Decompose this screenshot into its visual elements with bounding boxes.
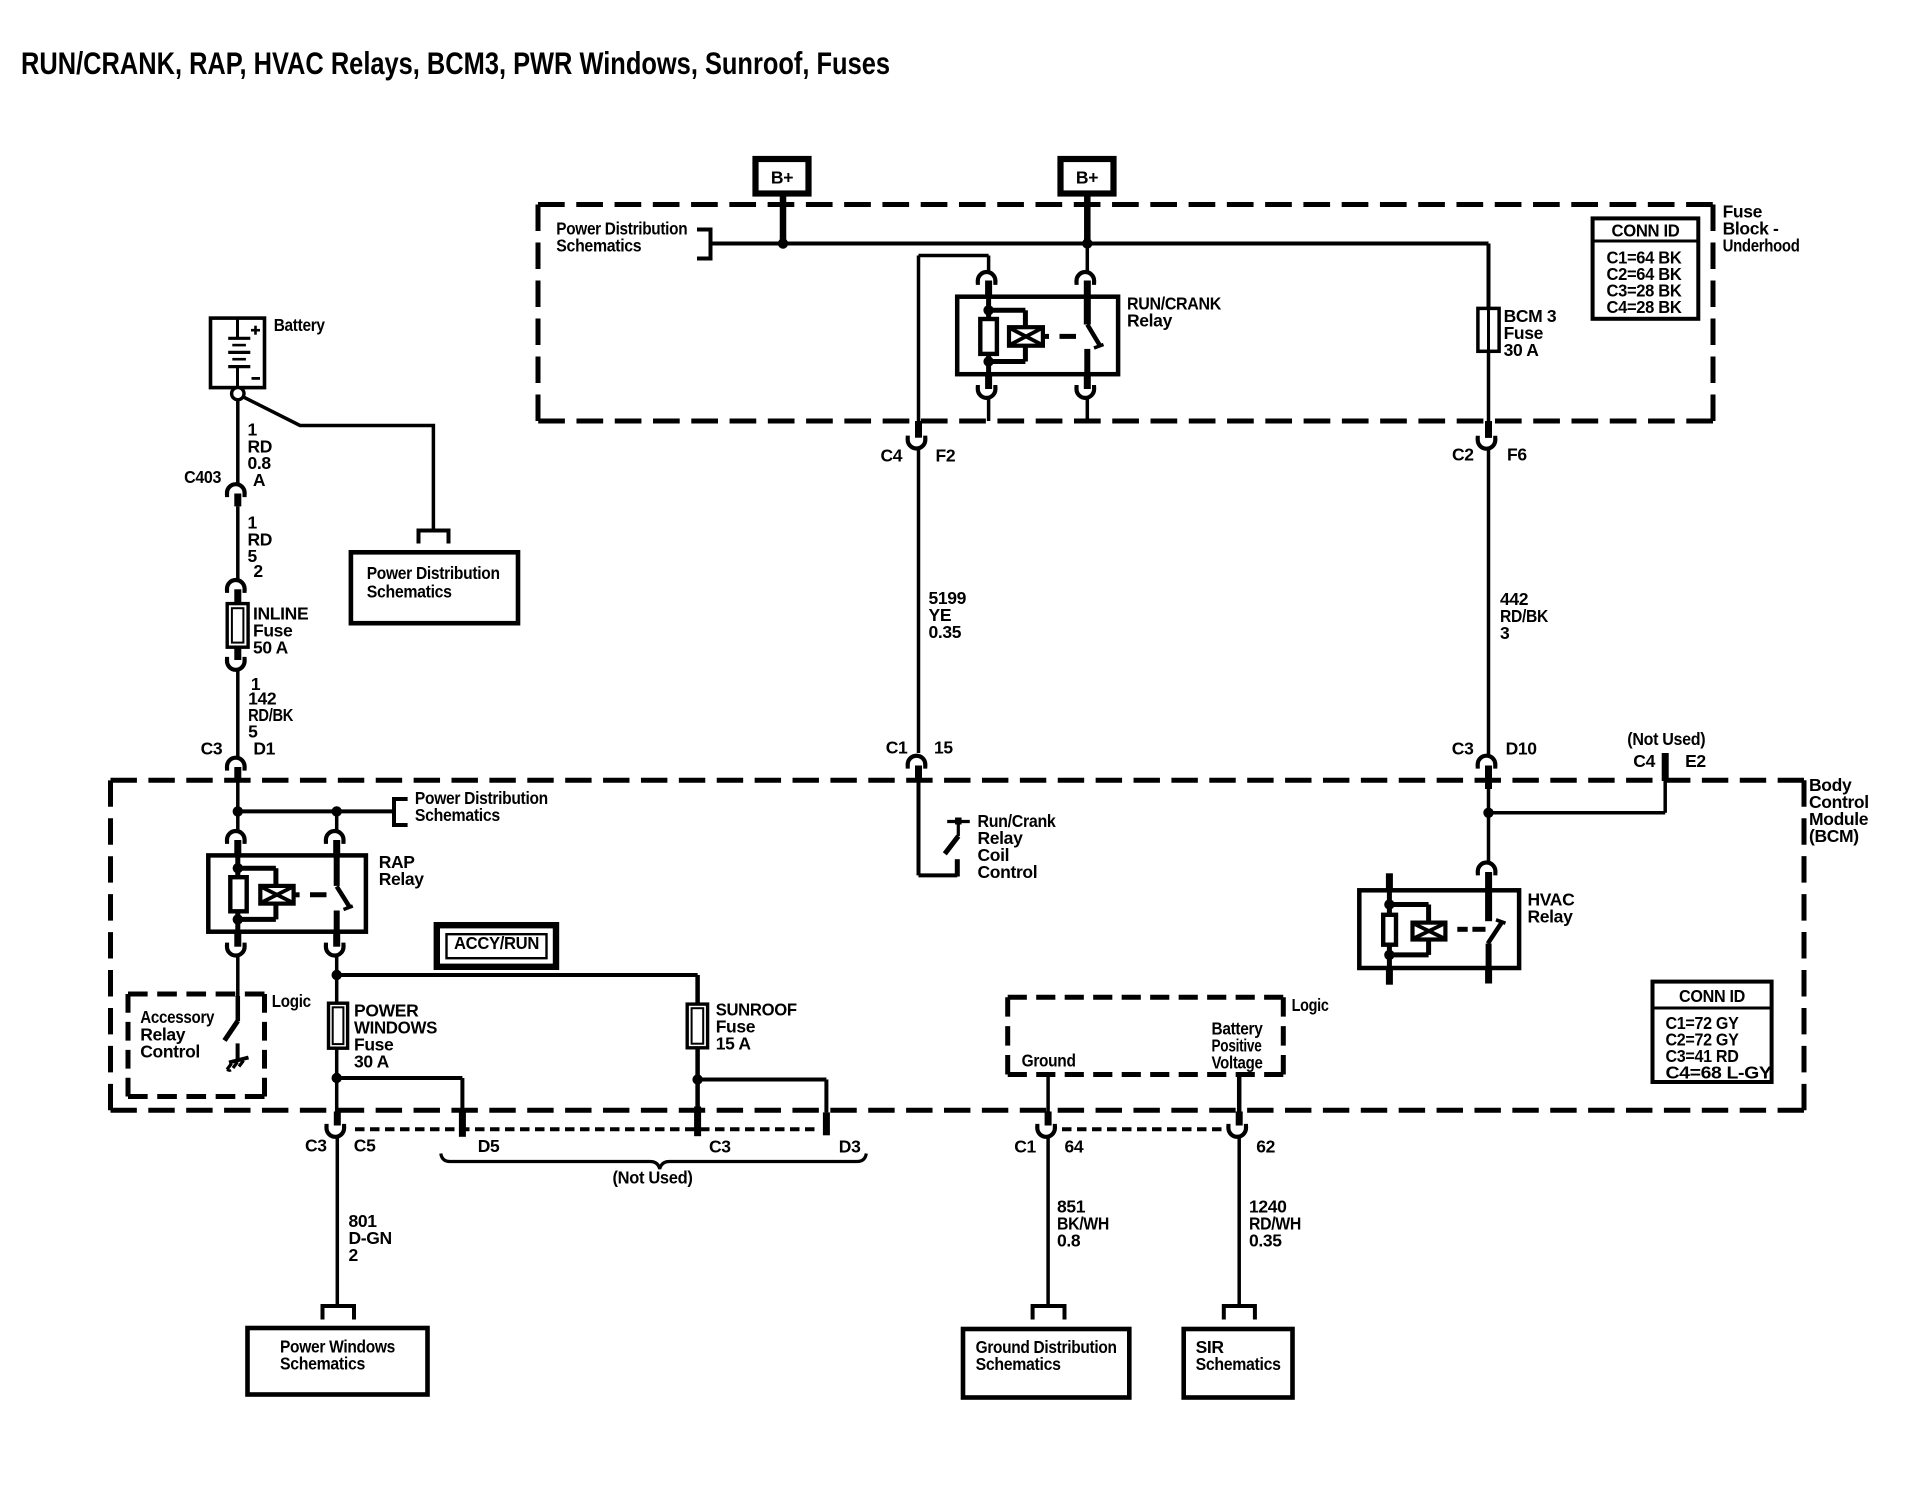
svg-text:Voltage: Voltage	[1212, 1053, 1264, 1073]
connector C403	[184, 467, 247, 506]
reference bracket Power Distribution Schematics (top)	[697, 230, 711, 259]
svg-text:62: 62	[1256, 1137, 1275, 1157]
svg-text:C3: C3	[1452, 739, 1474, 759]
svg-text:C4: C4	[881, 446, 903, 466]
svg-text:Control: Control	[140, 1042, 200, 1062]
ground (chassis)	[227, 1043, 249, 1070]
fuse block underhood dashed boundary	[538, 202, 1713, 207]
node junction B+1 / bus	[778, 238, 788, 248]
connector harness dotted line (right)	[1062, 1127, 1226, 1131]
label HVAC Relay	[1528, 890, 1576, 927]
wire RUN/CRANK coil feed (up-over-down to C4 F2)	[987, 256, 991, 271]
svg-text:Control: Control	[978, 862, 1038, 882]
connector C2 F6	[1452, 421, 1527, 465]
svg-text:B+: B+	[1076, 168, 1098, 188]
svg-text:C1: C1	[886, 737, 908, 757]
body control module dashed boundary	[111, 778, 1805, 783]
svg-text:D5: D5	[478, 1136, 500, 1156]
wire coil control into BCM	[917, 782, 921, 875]
node junction D5 branch	[332, 1073, 342, 1083]
wire 851 BK/WH	[1046, 1137, 1050, 1305]
connector C1 15	[886, 737, 954, 782]
page connector bracket (SIR)	[1224, 1306, 1255, 1320]
svg-text:C4=68 L-GY: C4=68 L-GY	[1666, 1062, 1773, 1082]
svg-text:Schematics: Schematics	[280, 1354, 366, 1374]
page connector bracket (power windows)	[323, 1306, 355, 1320]
connector C1 64	[1014, 1112, 1084, 1157]
node junction B+2 / bus	[1082, 238, 1092, 248]
wire battery positive	[1237, 1075, 1242, 1112]
wire branch to D5	[337, 1076, 463, 1080]
label RAP Relay	[379, 852, 425, 889]
svg-text:Schematics: Schematics	[976, 1354, 1062, 1374]
svg-text:C403: C403	[184, 467, 222, 487]
wire RAP coil to logic	[236, 956, 240, 996]
wire sunroof fuse to C3	[695, 1048, 700, 1107]
wire 442 RD/BK	[1487, 449, 1491, 755]
wire B+ left stem	[780, 194, 787, 244]
svg-text:64: 64	[1065, 1137, 1084, 1157]
svg-text:Relay: Relay	[1127, 311, 1173, 331]
svg-text:(BCM): (BCM)	[1809, 826, 1859, 846]
svg-text:D3: D3	[839, 1137, 861, 1157]
connector below inline fuse	[225, 647, 247, 670]
box Power Windows Schematics	[248, 1328, 428, 1395]
svg-text:ACCY/RUN: ACCY/RUN	[454, 933, 539, 953]
svg-text:C3: C3	[305, 1135, 327, 1155]
wire fuse to C5	[335, 1048, 339, 1111]
connector D3 (not used)	[823, 1112, 861, 1156]
svg-text:Battery: Battery	[274, 315, 326, 335]
wire B+ right stem	[1084, 194, 1091, 244]
wire switch pin to boundary	[1086, 399, 1090, 421]
wire BCM3 fuse to boundary	[1487, 351, 1491, 421]
svg-text:C4: C4	[1633, 751, 1655, 771]
svg-text:Relay: Relay	[379, 869, 425, 889]
svg-text:C1: C1	[1014, 1137, 1036, 1157]
wire C403 to inline fuse	[236, 506, 240, 579]
svg-text:Schematics: Schematics	[415, 805, 501, 825]
relay U1 RUN/CRANK	[957, 272, 1118, 398]
svg-text:C2: C2	[1452, 445, 1474, 465]
table CONN ID (fuse block)	[1593, 218, 1699, 318]
box SIR Schematics	[1184, 1329, 1293, 1398]
wire 5199 YE	[917, 449, 921, 753]
svg-text:Schematics: Schematics	[1196, 1354, 1282, 1374]
svg-text:0.35: 0.35	[929, 622, 962, 642]
svg-text:15 A: 15 A	[716, 1034, 752, 1054]
svg-text:C3: C3	[201, 739, 223, 759]
wire E2 branch	[1489, 811, 1666, 815]
svg-text:E2: E2	[1685, 751, 1706, 771]
connector C3 C5	[305, 1112, 376, 1156]
svg-text:Schematics: Schematics	[556, 236, 642, 256]
wire to RAP bracket	[238, 809, 394, 813]
logic box Accessory Relay Control	[128, 992, 265, 997]
wire battery to C403	[236, 400, 240, 484]
power symbol B+ (left)	[756, 159, 809, 194]
connector C4 E2 (not used)	[1627, 729, 1706, 781]
svg-text:15: 15	[934, 737, 953, 757]
node junction E2 branch	[1483, 808, 1493, 818]
fuse BCM 3 30A	[1478, 308, 1499, 351]
wire C3 D1 into BCM	[236, 781, 240, 832]
svg-text:(Not Used): (Not Used)	[1627, 729, 1705, 749]
svg-text:F6: F6	[1507, 445, 1527, 465]
label Run/Crank Relay Coil Control	[978, 811, 1057, 882]
svg-text:3: 3	[1500, 623, 1510, 643]
svg-text:D10: D10	[1506, 739, 1538, 759]
table CONN ID (BCM)	[1653, 982, 1773, 1083]
connector C3 (sunroof, not used)	[694, 1107, 731, 1157]
node junction D3 branch	[692, 1074, 702, 1084]
wire branch to D3	[698, 1078, 827, 1082]
wire 801 D-GN	[336, 1137, 340, 1305]
wire coil pin to boundary	[987, 399, 991, 421]
node junction ACCY/RUN bus	[332, 970, 342, 980]
wire 142 RD/BK	[236, 671, 240, 758]
node junction RAP coil	[233, 806, 243, 816]
svg-text:Schematics: Schematics	[367, 581, 453, 601]
wire bus to BCM3 fuse	[1487, 244, 1491, 310]
svg-text:Underhood: Underhood	[1723, 236, 1800, 256]
wire battery feed to power distribution	[243, 397, 433, 530]
wire bus to sunroof fuse	[695, 975, 700, 1005]
node junction RAP switch	[332, 806, 342, 816]
fuse POWER WINDOWS 30A	[329, 1003, 348, 1048]
svg-text:RUN/CRANK, RAP, HVAC Relays, B: RUN/CRANK, RAP, HVAC Relays, BCM3, PWR W…	[21, 45, 890, 81]
svg-text:CONN ID: CONN ID	[1679, 986, 1745, 1006]
power symbol B+ (right)	[1061, 159, 1114, 194]
brace (Not Used)	[441, 1154, 867, 1170]
fuse SUNROOF 15A	[687, 1004, 707, 1048]
svg-text:C5: C5	[354, 1135, 376, 1155]
svg-text:0.35: 0.35	[1249, 1231, 1282, 1251]
label RUN/CRANK Relay	[1127, 294, 1222, 331]
battery B1	[211, 318, 265, 388]
svg-text:A: A	[253, 470, 266, 490]
connector 62	[1226, 1112, 1275, 1157]
connector C3 D1	[201, 739, 276, 781]
svg-text:CONN ID: CONN ID	[1612, 221, 1680, 241]
connector D5 (not used)	[459, 1110, 500, 1156]
label Body Control Module (BCM)	[1809, 775, 1869, 846]
svg-text:50 A: 50 A	[253, 638, 289, 658]
wire ground	[1046, 1075, 1050, 1112]
svg-text:Relay: Relay	[1528, 907, 1574, 927]
svg-text:0.8: 0.8	[1057, 1231, 1081, 1251]
box Power Distribution Schematics (left)	[351, 552, 518, 623]
svg-text:C4=28 BK: C4=28 BK	[1607, 297, 1683, 317]
relay K2 RAP	[208, 831, 366, 956]
wire 1240 RD/WH	[1237, 1137, 1241, 1305]
svg-text:Power Distribution: Power Distribution	[367, 563, 500, 583]
wire B+ bus	[711, 242, 1489, 246]
box Ground Distribution Schematics	[963, 1329, 1129, 1398]
switch accessory relay driver	[225, 1021, 238, 1041]
connector harness dotted line (left)	[355, 1127, 820, 1131]
fuse INLINE 50A	[227, 604, 248, 648]
svg-text:F2: F2	[936, 446, 956, 466]
logic box Ground / Battery Positive Voltage	[1008, 995, 1284, 1000]
switch run/crank relay driver	[945, 818, 970, 854]
page connector bracket (ground distribution)	[1033, 1306, 1065, 1320]
svg-text:(Not Used): (Not Used)	[613, 1168, 693, 1188]
svg-text:Logic: Logic	[272, 991, 312, 1011]
svg-text:2: 2	[253, 561, 263, 581]
wire C3 D10 into BCM	[1487, 789, 1491, 862]
page connector bracket	[419, 531, 449, 544]
connector C3 D10	[1452, 739, 1537, 790]
relay K3 HVAC	[1359, 863, 1519, 985]
label Fuse Block - Underhood	[1723, 202, 1800, 256]
svg-text:30 A: 30 A	[1504, 340, 1540, 360]
svg-text:30 A: 30 A	[354, 1052, 390, 1072]
wire RAP switch output	[335, 956, 339, 1004]
svg-text:Logic: Logic	[1292, 995, 1330, 1015]
wire bus to switch pin	[1086, 244, 1090, 271]
svg-text:B+: B+	[771, 168, 793, 188]
power symbol ACCY/RUN	[437, 925, 556, 967]
node battery negative post	[232, 387, 244, 399]
connector C4 F2	[881, 421, 956, 466]
wire ACCY/RUN bus	[337, 973, 698, 977]
svg-text:2: 2	[349, 1245, 359, 1265]
reference bracket Power Distribution Schematics (RAP)	[394, 799, 408, 825]
svg-text:D1: D1	[253, 739, 275, 759]
svg-text:Ground: Ground	[1022, 1051, 1076, 1071]
svg-text:C3: C3	[709, 1137, 731, 1157]
